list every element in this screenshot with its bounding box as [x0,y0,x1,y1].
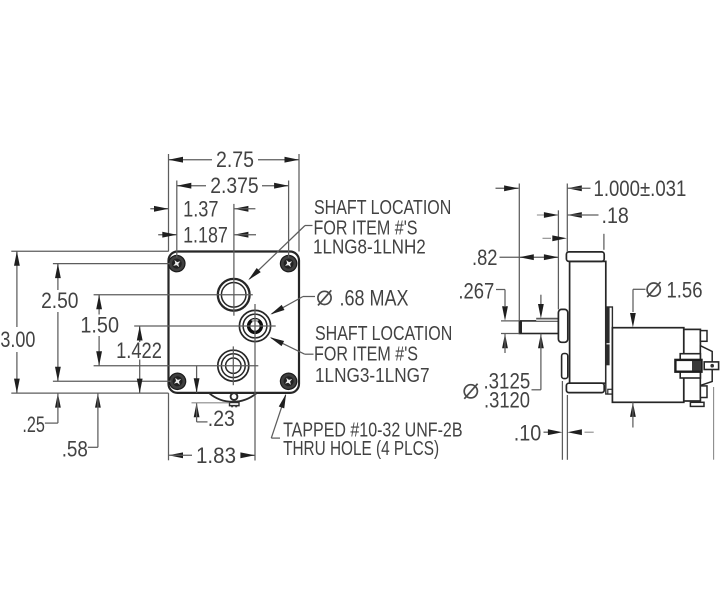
label tapped holes [283,419,462,460]
extension line bottom screws row (left) [53,380,171,382]
gearbox top flange [566,252,604,262]
leader from .68 MAX to hub [269,297,315,318]
brush holder upper slab [680,354,700,361]
svg-text:1.000±.031: 1.000±.031 [594,176,687,201]
svg-text:1.50: 1.50 [80,312,119,337]
terminal bracket [700,346,712,386]
svg-text:1.187: 1.187 [183,222,228,247]
leader to top hole [246,226,312,283]
dimension Ø1.56 [630,277,703,427]
dimension .58 [62,393,101,462]
bottom hole crosshair [94,346,259,385]
dimension 1.37 [150,197,255,222]
lower output boss [562,354,568,379]
svg-text:1.56: 1.56 [667,277,703,302]
extension line right screws column (top) [288,181,290,258]
label shaft location 2 [314,323,452,387]
top hole (shaft location 1LNG8-1LNH2) [218,279,250,311]
extension line box top (left side) [11,250,168,252]
dimension 1.422 [116,326,162,393]
svg-text:.18: .18 [602,203,629,228]
extension line box left edge (top) [168,154,170,252]
top hole crosshair [94,204,253,316]
extension line left screws column (top) [176,181,178,258]
dimension Ø.3125/.3120 [464,295,544,413]
extension line motor rear (bottom right) [713,387,715,460]
svg-text:1LNG3-1LNG7: 1LNG3-1LNG7 [315,365,430,387]
extension lines shaft top/bottom (left) [501,321,519,334]
upper output boss [558,309,567,342]
dimension 1.000±.031 [496,176,687,201]
svg-text:.25: .25 [22,412,45,437]
leader from tapped label to screw [271,393,289,438]
brush holder lower slab [680,371,700,378]
extension line lower boss face (bottom) [561,381,563,460]
label shaft location 1 [313,197,451,259]
dimension .267 [458,279,508,353]
svg-text:.58: .58 [62,437,88,462]
dimension .82 [472,245,558,270]
screw bottom-left [168,372,187,391]
extension line box bottom (left side) [11,392,168,394]
svg-text:2.375: 2.375 [210,173,258,198]
brush holder middle slab [675,360,701,372]
small terminal tab below arc [230,402,240,407]
dimension .18 [537,203,629,228]
screw top-left [167,254,186,273]
extension line top screws row (left) [53,263,170,265]
gearbox bottom flange [566,383,604,392]
extension line box right edge (top) [298,154,300,252]
output shaft [519,321,558,334]
motor end cap [684,329,701,401]
svg-text:1.83: 1.83 [196,443,236,468]
svg-text:.267: .267 [458,279,494,304]
screw top-right [279,254,298,273]
svg-text:.3120: .3120 [484,387,530,412]
extension line plate left edge (bottom) [168,393,170,460]
end cap bottom foot [690,402,704,406]
dimension 1.83 [169,443,255,468]
svg-text:.68 MAX: .68 MAX [340,285,409,310]
end cap top tab [700,331,707,342]
diameter symbol and label .68 MAX [318,285,409,310]
svg-text:2.75: 2.75 [216,147,254,172]
dimension 2.75 [169,147,300,172]
svg-text:1LNG8-1LNH2: 1LNG8-1LNH2 [313,237,426,259]
svg-text:.10: .10 [514,420,542,445]
dimension 3.00 [0,251,35,393]
svg-text:1.422: 1.422 [116,338,162,363]
motor body [612,328,683,403]
svg-text:3.00: 3.00 [0,327,35,352]
gearbox front plate [169,252,300,393]
middle shaft hub (output shaft) [239,310,270,341]
motor front plate between gearbox and motor [606,307,613,394]
dimension 1.50 [80,295,119,366]
svg-text:1.37: 1.37 [183,197,218,222]
dimension 2.50 [41,264,78,382]
motor can arc bump below plate [209,393,257,402]
svg-text:SHAFT LOCATION: SHAFT LOCATION [314,197,451,219]
extension line gearbox face (bottom) [566,395,568,460]
spade terminal [704,362,718,370]
svg-text:THRU HOLE (4 PLCS): THRU HOLE (4 PLCS) [283,438,439,460]
extension line gearbox rear edge (top) [603,234,605,250]
dimension .23 [192,366,235,431]
dimension .25 [22,393,60,437]
single arrow at gearbox face (second row) [543,235,567,241]
svg-text:SHAFT LOCATION: SHAFT LOCATION [315,323,452,345]
dimension 2.375 [177,173,289,198]
extension line shaft tip [518,184,520,321]
shaft full-diameter strip (flat reference) [536,319,558,321]
leader from shaft location 2 to hub [269,335,314,355]
svg-text:2.50: 2.50 [41,288,78,313]
dimension .10 [514,420,594,445]
end cap bottom tab [700,386,707,398]
gearbox side body [570,261,606,383]
screw bottom-right [279,372,298,391]
middle hub crosshair [134,304,276,461]
dimension 1.187 [158,222,256,247]
svg-text:.82: .82 [472,245,498,270]
extension line gearbox face (top) [566,184,568,252]
svg-text:FOR ITEM #'S: FOR ITEM #'S [314,344,418,366]
bottom hole (shaft location) [218,350,249,381]
svg-text:.23: .23 [208,406,235,431]
small pin circle on bottom edge [231,393,238,400]
extension line boss face (top) [557,210,559,309]
